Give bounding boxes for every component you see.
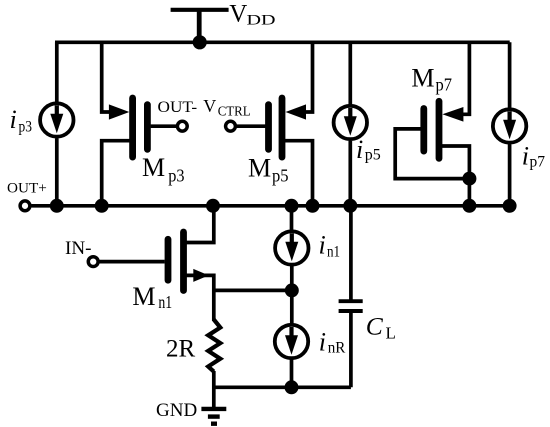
wire: resistor bottom to ground — [212, 371, 216, 407]
node dot: Mp7 gate-drain junction — [462, 172, 476, 186]
wire: Mn1 drain up to OUT+ rail — [184, 206, 214, 243]
svg-text:OUT-: OUT- — [158, 99, 198, 116]
wire: IN- to Mn1 gate — [100, 260, 165, 264]
wire: ip5 top feed — [348, 42, 352, 105]
transistor Mp5 — [269, 98, 307, 157]
wire: Mp3 source feed from rail — [102, 42, 112, 112]
wire: Mp7 gate loop to drain — [395, 129, 469, 179]
svg-text:IN-: IN- — [65, 238, 92, 259]
node dot: inR on bottom wire — [285, 380, 299, 394]
svg-text:i: i — [522, 142, 529, 171]
node dot: ip7 on OUT+ rail — [503, 199, 517, 213]
svg-text:V: V — [203, 96, 216, 116]
wire: ip3 top feed — [55, 42, 59, 102]
node dot: Mn1 drain on OUT+ rail — [206, 199, 220, 213]
label in1 — [319, 231, 341, 261]
svg-text:nR: nR — [328, 340, 346, 357]
terminal IN- — [88, 257, 98, 267]
wire: Mp7 drain down to rail — [439, 146, 469, 206]
wire: ip3 to OUT+ node — [55, 139, 59, 206]
resistor 2R — [208, 320, 220, 372]
svg-text:GND: GND — [156, 400, 197, 421]
current source ip3 — [40, 103, 73, 136]
ground symbol — [201, 409, 226, 424]
label Mp5 — [248, 153, 289, 185]
wire: ip7 to OUT+ rail — [508, 145, 512, 206]
current source ip7 — [493, 109, 526, 142]
wire: in1 to source node — [290, 265, 294, 291]
wire: CL bottom to bottom node — [349, 313, 353, 387]
wire: OUT+ rail — [31, 204, 509, 208]
label ip5 — [356, 135, 381, 164]
label ip7 — [522, 142, 545, 171]
label VDD — [229, 1, 275, 29]
svg-text:p7: p7 — [436, 75, 453, 95]
node dot: in1 on OUT+ rail — [285, 199, 299, 213]
svg-text:M: M — [411, 64, 434, 93]
svg-text:i: i — [319, 328, 326, 357]
label Mp7 — [411, 64, 452, 95]
svg-text:p3: p3 — [19, 118, 33, 135]
label GND — [156, 400, 197, 421]
label ip3 — [10, 105, 33, 136]
transistor Mp3 — [109, 98, 147, 157]
svg-text:p5: p5 — [365, 147, 381, 164]
wire: top VDD rail — [55, 40, 510, 44]
label Mp3 — [142, 153, 185, 185]
label Mn1 — [132, 282, 172, 312]
wire: ip7 top feed — [508, 42, 512, 108]
node dot: ip3 on OUT+ rail — [50, 199, 64, 213]
terminal OUT- — [177, 121, 187, 131]
VDD supply symbol — [171, 10, 229, 42]
capacitor CL — [339, 301, 363, 311]
svg-text:V: V — [229, 1, 247, 28]
label 2R — [166, 336, 196, 363]
terminal OUT+ — [20, 201, 30, 211]
svg-text:M: M — [132, 282, 155, 311]
wire: Mp5 source feed from rail — [302, 42, 313, 112]
svg-text:i: i — [319, 231, 326, 260]
wire: in1 top feed from rail — [290, 206, 294, 231]
node dot: Mp5 drain on OUT+ rail — [306, 199, 320, 213]
wire: source node branch to in1/inR node — [214, 289, 292, 293]
svg-text:CTRL: CTRL — [218, 104, 251, 119]
node dot: VDD tap on top rail — [193, 35, 207, 49]
label CL — [366, 312, 396, 343]
svg-text:L: L — [386, 324, 396, 343]
wire: ip5 to OUT+ rail — [348, 141, 352, 206]
svg-text:i: i — [356, 135, 363, 164]
wire: inR to bottom node — [290, 358, 294, 387]
label OUT+ — [7, 180, 47, 196]
wire: VCTRL to Mp5 gate — [236, 124, 265, 128]
svg-text:n1: n1 — [158, 292, 172, 312]
svg-text:p5: p5 — [272, 166, 289, 186]
transistor Mn1 — [168, 232, 209, 290]
terminal VCTRL — [226, 121, 236, 131]
label IN- — [65, 238, 92, 259]
wire: source node to inR — [290, 290, 294, 325]
wire: Mp3 gate to OUT- terminal — [151, 124, 177, 128]
svg-text:DD: DD — [247, 13, 276, 29]
current source inR — [275, 325, 308, 358]
svg-text:OUT+: OUT+ — [7, 180, 47, 196]
svg-text:M: M — [248, 153, 271, 182]
wire: bottom node wire — [214, 385, 351, 389]
node dot: Mp7 drain on OUT+ rail — [462, 199, 476, 213]
current source ip5 — [334, 106, 367, 139]
transistor Mp7 — [424, 101, 464, 158]
label VCTRL — [203, 96, 250, 119]
node dot: source node junction — [285, 283, 299, 297]
svg-text:i: i — [10, 105, 17, 134]
label inR — [319, 328, 346, 357]
wire: Mp5 drain to OUT+ rail — [282, 141, 313, 206]
wire: Mp3 drain to OUT+ rail — [102, 141, 133, 206]
current source in1 — [275, 231, 308, 264]
node dot: ip5 on OUT+ rail — [343, 199, 357, 213]
svg-text:p7: p7 — [530, 154, 546, 171]
label OUT- — [158, 99, 198, 116]
svg-text:n1: n1 — [327, 244, 340, 261]
svg-text:C: C — [366, 312, 384, 341]
wire: Mp7 source feed from rail — [461, 42, 469, 114]
svg-text:2R: 2R — [166, 336, 196, 363]
wire: Mn1 source to resistor — [184, 275, 214, 321]
wire: CL top feed from rail — [349, 206, 353, 301]
node dot: Mp3 drain on OUT+ rail — [95, 199, 109, 213]
svg-text:p3: p3 — [168, 165, 185, 185]
svg-text:M: M — [142, 153, 165, 182]
